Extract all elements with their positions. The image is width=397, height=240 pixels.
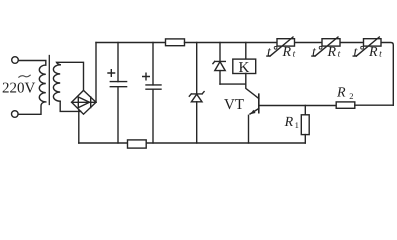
svg-text:t: t [293,50,296,60]
svg-text:t: t [354,45,359,60]
svg-text:1: 1 [295,120,299,130]
svg-text:R: R [284,115,294,130]
svg-text:220V: 220V [2,81,36,97]
svg-text:K: K [239,60,250,76]
svg-text:VT: VT [224,97,244,113]
svg-text:t: t [379,50,382,60]
svg-text:R: R [327,45,337,60]
svg-text:R: R [282,45,292,60]
svg-text:t: t [338,50,341,60]
svg-text:2: 2 [349,91,353,101]
svg-text:t: t [267,45,272,60]
svg-text:R: R [368,45,378,60]
svg-text:t: t [312,45,317,60]
svg-text:R: R [336,86,346,101]
